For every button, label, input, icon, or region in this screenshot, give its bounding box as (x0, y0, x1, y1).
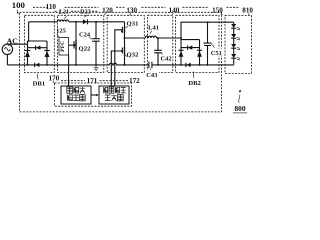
LED D3 (231, 44, 236, 48)
DB2 bottom diode (185, 63, 187, 67)
leader tick Q32 (125, 54, 128, 57)
junction C51 top (207, 21, 209, 23)
transistor Q32 (124, 38, 126, 47)
midpoint wire to L41 (125, 37, 182, 39)
junction DB1 bottom-right (46, 64, 48, 66)
junction L41/C42 (157, 37, 159, 39)
leader arrow for 100 (17, 10, 18, 13)
svg-text:800: 800 (234, 104, 245, 113)
leader tick C43 (149, 68, 151, 70)
svg-text:125: 125 (56, 28, 67, 35)
svg-text:810: 810 (242, 7, 253, 15)
leader tick 120 (104, 13, 106, 15)
DB1 right diode (44, 50, 49, 52)
svg-text:C24: C24 (79, 32, 91, 39)
label C43 (146, 70, 159, 77)
junction half-bridge midpoint (124, 37, 126, 39)
wire DB2 to top-right rail (181, 22, 234, 38)
LED D1 (231, 24, 236, 28)
leader tick 810 (247, 13, 250, 15)
diode bridge DB2 (181, 38, 200, 65)
leader arrow 800 (239, 95, 240, 103)
capacitor C24 (95, 22, 97, 65)
leader tick C51 (211, 44, 214, 48)
leader tick 170 (53, 81, 55, 83)
wire PFC to Q22 gate (69, 44, 74, 46)
junction DB1 bottom-left (27, 64, 29, 66)
leader tick L21 (64, 16, 66, 18)
enclosure box 100 (power supply unit) (20, 12, 222, 112)
svg-text:C43: C43 (146, 72, 158, 79)
Q32 gate wire (111, 51, 122, 86)
diode D23 (83, 19, 87, 24)
svg-text:110: 110 (46, 3, 57, 11)
svg-text:DB2: DB2 (188, 80, 201, 87)
junction DB2 bottom-right (199, 64, 201, 66)
block 810 (LED load) (225, 16, 252, 74)
DB2 top diode (187, 45, 189, 50)
wire DB1 to top rail (28, 22, 30, 41)
text 設定部 (67, 95, 72, 101)
svg-text:100: 100 (12, 0, 26, 10)
svg-text:130: 130 (126, 7, 137, 15)
DB1 bottom diode (34, 63, 36, 67)
svg-text:172: 172 (129, 77, 140, 85)
text 周波数 (67, 87, 73, 93)
svg-text:120: 120 (102, 7, 113, 15)
svg-text:140: 140 (169, 7, 180, 15)
wire AC bottom to bottom rail (6, 55, 8, 65)
svg-text:Q32: Q32 (127, 51, 140, 58)
LED D2 (231, 34, 236, 38)
leader tick D23 (84, 15, 86, 17)
svg-text:150: 150 (212, 7, 223, 15)
svg-text:DB1: DB1 (33, 80, 45, 87)
AC source symbol (2, 44, 12, 54)
DB2 left diode (178, 49, 183, 51)
svg-text:C42: C42 (160, 56, 171, 63)
leader tick 140 (172, 13, 173, 15)
inductor L41 (145, 36, 156, 38)
junction C24 top (95, 21, 97, 23)
leader dashes 171/172 (61, 80, 85, 82)
block 150 (output rectifier stage) (176, 15, 219, 72)
capacitor C43 (series in rail) (149, 62, 152, 68)
svg-text:PFC: PFC (60, 41, 66, 52)
arrow box171 to box172 (91, 94, 97, 96)
DB1 left diode (25, 50, 30, 52)
diode bridge DB1 (28, 41, 48, 65)
leader tick 130 (129, 13, 131, 15)
leader tick C24 (89, 37, 92, 39)
junction C24 bottom (95, 64, 97, 66)
block 130 (inverter stage) (107, 15, 144, 72)
junction DB2 bottom-left (180, 64, 182, 66)
capacitor C42 (157, 38, 159, 65)
capacitor C51 (207, 22, 209, 65)
text 制御信号 (104, 87, 108, 93)
svg-text:Q31: Q31 (127, 20, 139, 27)
junction DB1 top (28, 40, 30, 42)
label C51 (210, 49, 223, 56)
block 120 (PFC stage) (57, 15, 103, 72)
bottom rail wire (with hops over gate lines, gap for C43) (7, 63, 233, 65)
inductor L21 (57, 20, 68, 22)
junction Q32 source (124, 64, 126, 66)
leader tick C42 (161, 53, 163, 55)
block 110 (rectifier stage) (25, 15, 55, 72)
leader tick DB1 (36, 74, 39, 80)
junction C42 bottom (157, 64, 159, 66)
leader tick 150 (221, 13, 223, 15)
control signal generator box 172 (99, 86, 129, 104)
leader tick L41 (150, 31, 152, 34)
DB2 right diode (197, 49, 202, 51)
svg-text:L21: L21 (59, 8, 69, 15)
transistor Q31 (124, 22, 126, 26)
frequency setting box 171 (61, 86, 91, 104)
leader tick Q31 (126, 26, 128, 28)
junction Q22 source (75, 64, 77, 66)
DB1 top diode (35, 45, 37, 50)
leader dashes L21/D23 row (55, 10, 58, 12)
LED string wire (233, 22, 235, 65)
junction DB2 input (180, 37, 182, 39)
wire AC top to DB1 (8, 43, 27, 45)
Q31 gate wire (115, 30, 123, 86)
junction C51 bottom (207, 64, 209, 66)
transistor Q22 (75, 22, 77, 65)
leader tick 125 (57, 34, 59, 37)
leader tick 110 (59, 10, 61, 14)
svg-text:170: 170 (49, 75, 60, 83)
leader dash rows top (33, 6, 48, 8)
LED D4 (231, 54, 236, 58)
leader tick AC (8, 44, 10, 46)
svg-text:D23: D23 (80, 8, 91, 15)
block 170 (control section) (55, 83, 132, 106)
wire PFC to control box (68, 55, 70, 86)
svg-text:Q22: Q22 (79, 45, 92, 52)
top rail wire (29, 21, 125, 23)
ground symbol (94, 65, 99, 71)
leader tick DB2 (192, 71, 195, 78)
label C42 (160, 55, 173, 62)
PFC controller box 125 (59, 38, 69, 55)
junction Q22 drain (75, 21, 77, 23)
svg-text:C51: C51 (211, 50, 222, 57)
svg-text:171: 171 (87, 77, 98, 85)
block 140 (resonant stage) (147, 15, 172, 72)
text 生成部 (105, 95, 111, 101)
label 170 (47, 75, 61, 82)
svg-text:L41: L41 (148, 24, 159, 31)
